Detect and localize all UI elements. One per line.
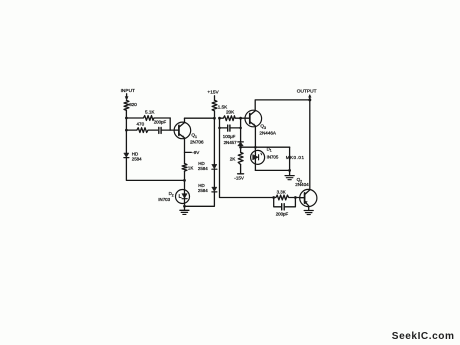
wire left diode rail middle: [213, 169, 215, 187]
wire Q1 collector: [184, 118, 186, 122]
resistor 820: [124, 100, 137, 110]
svg-text:Q3: Q3: [260, 124, 266, 130]
wire output rail down to Q2: [309, 100, 311, 190]
diode HD 2584 (lower, rail): [198, 183, 217, 193]
transistor Q2 2N404: [295, 177, 317, 206]
svg-text:Q1: Q1: [191, 133, 197, 139]
wire left diode rail top: [213, 118, 215, 164]
svg-text:200pF: 200pF: [154, 119, 167, 124]
resistor 3.3K: [274, 190, 300, 200]
svg-text:-15V: -15V: [234, 176, 245, 181]
diode HD 2584 (input leg): [124, 152, 142, 162]
wire 1K to D2: [184, 171, 186, 206]
node -15V terminal: [234, 165, 245, 181]
svg-text:IN705: IN705: [267, 154, 279, 159]
node E (emitter/box junction): [254, 146, 257, 149]
svg-text:INPUT: INPUT: [121, 88, 135, 94]
transistor Q1 2N706: [174, 122, 204, 144]
svg-text:3.3K: 3.3K: [277, 190, 286, 195]
wire right rail (to Q2 base): [220, 118, 274, 197]
svg-text:MK0.01: MK0.01: [286, 155, 305, 160]
node F (box bottom right): [288, 169, 291, 172]
node H (3.3K left): [272, 196, 275, 199]
wire zener rail: [240, 118, 242, 142]
svg-text:2N446A: 2N446A: [259, 130, 277, 135]
node G (collector/output junction): [308, 98, 311, 101]
svg-text:2K: 2K: [230, 157, 237, 162]
node C2 (right rail tap): [218, 117, 221, 120]
node INPUT terminal: [121, 88, 135, 100]
capacitor 200pF (Q2 base): [274, 198, 296, 217]
svg-text:20K: 20K: [226, 109, 235, 114]
node +15V terminal: [207, 90, 219, 101]
svg-text:820: 820: [129, 102, 137, 107]
wire zener to node D: [240, 146, 242, 152]
capacitor 100uF: [218, 125, 242, 139]
svg-text:+15V: +15V: [207, 90, 219, 96]
svg-text:2584: 2584: [198, 188, 208, 193]
node J (1K bottom / left feedback): [183, 179, 186, 182]
node -9V tick: [185, 150, 201, 155]
node OUTPUT terminal: [297, 89, 317, 100]
ground (box): [285, 170, 294, 179]
node B (junction input/470): [125, 129, 128, 132]
node A (junction input/5.1K): [125, 117, 128, 120]
svg-text:2N457: 2N457: [224, 140, 237, 145]
node C (1.5K / collector rail): [213, 117, 216, 120]
wire box bottom: [255, 169, 289, 171]
wire input leg to bottom corner: [126, 158, 184, 181]
svg-text:470: 470: [137, 122, 145, 127]
diode D1 IN705: [251, 146, 279, 170]
node D (zener/2K/box): [239, 146, 242, 149]
diode 2N457: [224, 140, 244, 146]
wire box top (Q3 emitter net): [241, 146, 290, 148]
diode HD 2584 (upper, rail): [198, 161, 217, 171]
svg-text:5.1K: 5.1K: [145, 109, 155, 114]
wire Q3 emitter: [254, 126, 256, 147]
resistor 20K: [220, 109, 245, 120]
wire 5.1K drop: [169, 118, 171, 130]
resistor 1K: [182, 164, 193, 172]
wire input rail down: [125, 110, 127, 152]
ground (Q2 emitter): [304, 206, 313, 215]
svg-text:-9V: -9V: [192, 150, 200, 155]
wire collector rail to Q3 base: [185, 117, 215, 119]
capacitor 200pF (input): [154, 119, 175, 133]
resistor 2K: [230, 152, 243, 164]
node I (3.3K right): [294, 196, 297, 199]
capacitor MK0.01 (box right leg): [286, 147, 305, 170]
svg-text:2584: 2584: [198, 166, 208, 171]
ground (D2): [180, 206, 189, 214]
transistor Q3 2N446A: [245, 110, 277, 135]
wire left diode rail bottom to ground wire: [185, 192, 215, 206]
svg-text:1K: 1K: [188, 165, 193, 170]
wire Q1 emitter leg: [184, 138, 186, 163]
svg-text:SeekIC.com: SeekIC.com: [392, 331, 455, 342]
node C3 (zener rail tap): [239, 117, 242, 120]
svg-text:2N706: 2N706: [190, 139, 204, 144]
svg-text:200pF: 200pF: [276, 211, 289, 216]
svg-text:2N404: 2N404: [295, 182, 309, 187]
svg-text:OUTPUT: OUTPUT: [297, 89, 317, 95]
wire Q3 collector to output rail: [255, 100, 310, 111]
resistor 1.5K: [212, 100, 228, 118]
svg-text:2584: 2584: [132, 156, 142, 161]
diode D2 IN703: [158, 190, 189, 204]
svg-text:100μF: 100μF: [223, 134, 236, 139]
svg-text:IN703: IN703: [158, 197, 170, 202]
resistor 5.1K: [126, 109, 170, 120]
resistor 470: [126, 122, 157, 133]
node K (D2 bottom / ground): [183, 205, 186, 208]
